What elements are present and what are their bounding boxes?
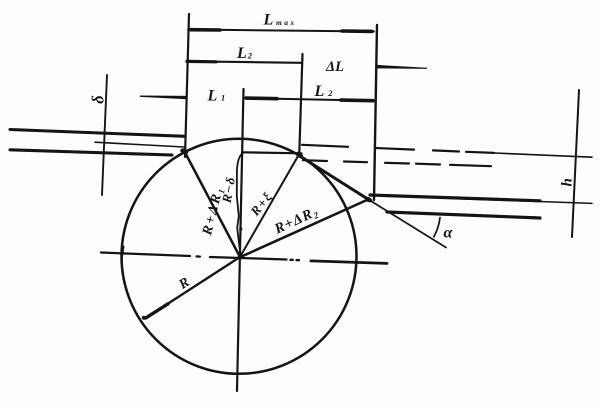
- junction blob at left tangent point: [179, 147, 189, 155]
- svg-text:α: α: [444, 225, 454, 242]
- thin tangent extension beyond bend point: [369, 200, 447, 248]
- dimension line L2 (upper): [187, 61, 301, 63]
- horizontal dash-dot centre line: [101, 253, 190, 257]
- extension line for h at right: [572, 90, 579, 237]
- right sheet bottom surface: [387, 212, 540, 218]
- left sheet: top surface: [10, 130, 185, 137]
- small dot on centre line: [239, 227, 242, 230]
- svg-text:1: 1: [221, 93, 225, 103]
- extension line x=376: [374, 25, 377, 200]
- junction blob at end of radius R: [142, 316, 146, 320]
- dimension line L1/L2 (lower): [244, 98, 375, 101]
- junction blob at right bend point: [364, 196, 373, 204]
- outside arrow for dL (right of x=376): [377, 65, 427, 69]
- dimension line L_max: [189, 30, 374, 32]
- right sheet top surface: [370, 195, 540, 201]
- junction blob at upper tangent point: [295, 150, 304, 159]
- radius line R+xi: [241, 155, 299, 256]
- left sheet: bottom surface: [10, 150, 172, 155]
- outside arrow for L1 (left of x=188): [140, 96, 187, 100]
- svg-text:L: L: [207, 88, 218, 105]
- svg-text:L: L: [314, 83, 325, 100]
- thin continuation of neutral line to h extension: [494, 153, 592, 157]
- svg-text:max: max: [276, 18, 297, 27]
- extension / centre line x=243 through circle centre: [237, 89, 244, 391]
- neutral-layer level line inside circle: [243, 152, 302, 153]
- radius line R+dR1 to left tangent point: [185, 152, 241, 258]
- svg-text:h: h: [560, 178, 576, 186]
- tick at left circle quadrant: [122, 247, 124, 261]
- left sheet: neutral line: [95, 142, 184, 147]
- svg-text:L: L: [236, 45, 247, 62]
- svg-text:ΔL: ΔL: [325, 59, 344, 75]
- thickness extension line for delta: [102, 75, 107, 195]
- thin extension of top surface to h line: [455, 199, 592, 204]
- extension line x=301: [299, 54, 302, 156]
- neutral axis dashed line (upper): [302, 145, 494, 153]
- angle alpha arc: [434, 218, 440, 237]
- bent sheet chord from top tangent to bend point: [301, 157, 369, 200]
- circle (roll): [122, 139, 357, 374]
- extension line x=188 (left end of L dimensions): [185, 14, 189, 157]
- junction blob at circle centre: [238, 254, 243, 259]
- svg-text:2: 2: [247, 50, 253, 60]
- svg-text:2: 2: [327, 88, 333, 98]
- radius line R (lower left): [145, 257, 240, 319]
- lower dashed line: [303, 160, 491, 166]
- svg-text:δ: δ: [89, 95, 108, 103]
- svg-text:L: L: [263, 12, 274, 29]
- radius line R-delta (with jog): [237, 153, 243, 255]
- radius line R+dR2 to right bend point: [241, 200, 369, 258]
